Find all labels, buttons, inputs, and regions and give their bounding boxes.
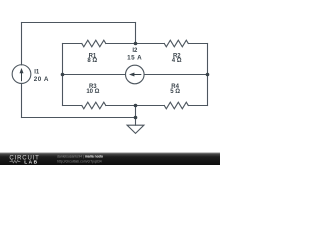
wire ground stub: [135, 106, 137, 126]
arrow of current source I1 (points up): [20, 68, 24, 81]
wire top rail left lead: [63, 43, 82, 45]
svg-text:20 A: 20 A: [34, 76, 49, 83]
wire drop from top to node between R1 and R2: [135, 23, 137, 44]
wire inner left vertical: [62, 44, 64, 106]
wire outer bottom: [22, 117, 136, 119]
node junction dot right of middle rail: [206, 73, 210, 77]
wire bottom rail middle: [106, 105, 165, 107]
wire left vertical below I1: [21, 83, 23, 117]
CircuitLab logo resistor squiggle: [10, 160, 21, 162]
svg-text:5 Ω: 5 Ω: [170, 89, 180, 95]
ground: [127, 125, 144, 133]
wire top rail right lead: [188, 43, 207, 45]
arrow of current source I2 (points left): [129, 73, 141, 77]
wire right vertical: [207, 44, 209, 106]
node junction dot on bottom wire: [134, 116, 138, 120]
resistor R3: [82, 102, 106, 109]
wire bottom rail right lead: [188, 105, 207, 107]
resistor R1: [82, 40, 106, 47]
svg-text:10 Ω: 10 Ω: [86, 89, 99, 95]
svg-text:danielsusanto94 | malla nodo: danielsusanto94 | malla nodo: [57, 154, 103, 158]
wire middle rail left: [63, 74, 126, 76]
svg-text:15 A: 15 A: [127, 55, 142, 62]
svg-text:I2: I2: [132, 48, 138, 54]
wire middle rail right: [144, 74, 207, 76]
current source I2: [126, 65, 145, 84]
resistor R2: [164, 40, 188, 47]
watermark caption line 2: [57, 159, 102, 163]
current source I1: [12, 65, 31, 84]
node junction dot between R3 and R4 (ground node): [134, 104, 138, 108]
watermark caption line 1: [57, 154, 103, 158]
svg-text:8 Ω: 8 Ω: [87, 58, 97, 64]
svg-text:http;//circuitlab.com/c/7pq834: http;//circuitlab.com/c/7pq834: [57, 159, 102, 163]
wire top rail middle: [106, 43, 165, 45]
wire bottom rail left lead: [63, 105, 82, 107]
node junction dot between R1 and R2: [134, 42, 138, 46]
resistor R4: [164, 102, 188, 109]
svg-text:I1: I1: [34, 69, 40, 75]
wire left vertical above I1: [21, 23, 23, 65]
node junction dot left of middle rail: [61, 73, 65, 77]
svg-text:LAB: LAB: [24, 160, 38, 166]
wire outer top: [22, 22, 136, 24]
svg-text:4 Ω: 4 Ω: [172, 58, 182, 64]
